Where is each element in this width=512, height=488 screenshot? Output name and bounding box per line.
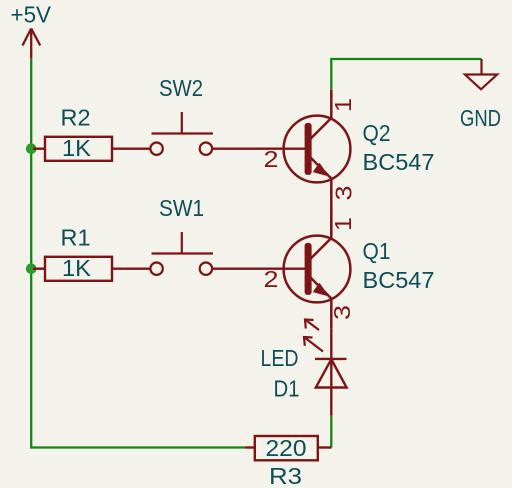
switch SW2: [150, 112, 213, 155]
svg-text:BC547: BC547: [363, 267, 435, 293]
svg-text:1: 1: [330, 98, 356, 112]
LED emission arrows of D1: [304, 320, 323, 352]
svg-text:D1: D1: [274, 376, 300, 402]
svg-text:SW2: SW2: [159, 75, 203, 101]
wire bottom right from LED to R3: [330, 416, 332, 448]
svg-text:Q2: Q2: [363, 120, 391, 146]
junction at R2: [26, 143, 37, 154]
transistor Q2: [284, 90, 351, 236]
transistor Q1: [284, 210, 351, 329]
svg-text:R3: R3: [269, 463, 302, 488]
wire top from Q2 collector to GND: [331, 59, 481, 90]
svg-text:SW1: SW1: [159, 195, 204, 221]
svg-text:Q1: Q1: [363, 238, 391, 264]
svg-text:+5V: +5V: [11, 2, 52, 28]
svg-text:220: 220: [266, 435, 307, 461]
power symbol +5V: [23, 29, 41, 59]
svg-text:BC547: BC547: [363, 149, 435, 175]
svg-text:1: 1: [330, 217, 356, 231]
switch SW1: [150, 232, 213, 275]
resistor R3: [245, 436, 331, 460]
wire SW2 to Q2 base: [212, 148, 307, 150]
pin 1 of Q2: [330, 98, 356, 112]
ground symbol GND: [465, 59, 497, 89]
wire SW1 to Q1 base: [212, 268, 307, 270]
svg-text:2: 2: [264, 146, 279, 172]
pin 3 of Q2: [331, 186, 357, 201]
svg-text:GND: GND: [460, 105, 501, 131]
diode LED D1: [315, 329, 347, 416]
wire left rail from +5V down and across bottom: [31, 59, 245, 448]
junction at R1: [26, 263, 37, 274]
svg-text:3: 3: [331, 186, 357, 201]
svg-text:2: 2: [264, 266, 279, 292]
svg-text:1K: 1K: [62, 255, 92, 281]
svg-text:LED: LED: [261, 345, 299, 371]
svg-text:1K: 1K: [62, 135, 92, 161]
pin 3 of Q1: [329, 305, 355, 320]
svg-text:R1: R1: [61, 225, 91, 251]
pin 1 of Q1: [330, 217, 356, 231]
svg-text:R2: R2: [61, 105, 91, 131]
resistor R1: [33, 257, 150, 281]
resistor R2: [33, 137, 150, 161]
svg-text:3: 3: [329, 305, 355, 320]
